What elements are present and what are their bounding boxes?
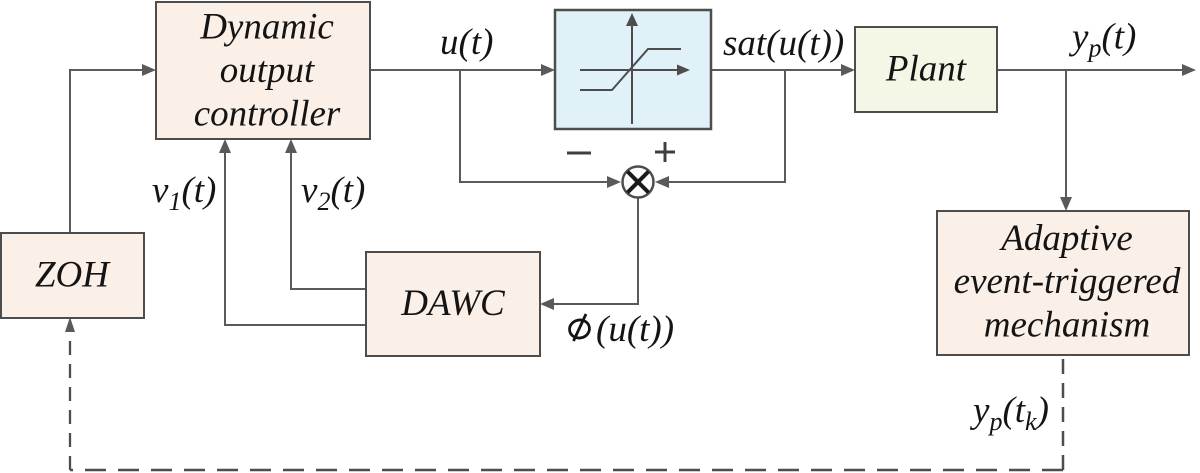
svg-text:v2(t): v2(t) <box>301 170 365 216</box>
svg-text:output: output <box>220 50 316 91</box>
label phi(u(t)) <box>568 318 591 340</box>
wire plant output to right edge <box>997 69 1192 71</box>
block Adaptive event-triggered mechanism <box>937 211 1189 355</box>
arrow into controller left <box>142 64 156 76</box>
svg-text:Adaptive: Adaptive <box>998 218 1133 259</box>
svg-text:DAWC: DAWC <box>400 283 506 324</box>
svg-text:v1(t): v1(t) <box>152 170 216 216</box>
svg-text:Dynamic: Dynamic <box>199 7 334 48</box>
wire DAWC lower output to controller (v1) <box>225 143 366 325</box>
node u(t) branch down to multiplier <box>460 70 617 182</box>
arrow into ZOH bottom <box>65 317 75 332</box>
arrow into multiplier left <box>607 176 621 188</box>
svg-text:sat(u(t)): sat(u(t)) <box>723 23 844 64</box>
arrow into DAWC right <box>540 298 554 310</box>
svg-text:yp(t): yp(t) <box>1068 17 1136 63</box>
block Plant <box>855 27 997 112</box>
svg-text:mechanism: mechanism <box>984 305 1150 346</box>
svg-text:controller: controller <box>194 94 341 135</box>
dashed wire up to ZOH <box>69 331 71 470</box>
block DAWC <box>366 252 540 356</box>
dashed wire adaptive mechanism down <box>1062 355 1065 470</box>
wire multiplier down and left to DAWC <box>544 198 638 305</box>
block ZOH <box>1 233 144 318</box>
label minus sign <box>567 152 591 155</box>
svg-text:Plant: Plant <box>885 49 968 90</box>
node y_p(t) branch down to adaptive mechanism <box>1065 70 1067 206</box>
svg-text:(u(t)): (u(t)) <box>596 309 674 350</box>
svg-text:yp(tk): yp(tk) <box>969 390 1049 436</box>
wire controller output to saturation <box>370 69 551 71</box>
svg-text:u(t): u(t) <box>440 22 493 63</box>
svg-text:ZOH: ZOH <box>35 255 111 296</box>
wire saturation output to plant <box>711 69 851 71</box>
arrow into multiplier right <box>655 176 669 188</box>
wire DAWC upper output to controller (v2) <box>291 143 366 289</box>
saturation horizontal axis <box>580 69 681 71</box>
saturation curve <box>580 49 681 90</box>
node sat(u(t)) branch down to multiplier <box>659 70 785 182</box>
svg-text:event-triggered: event-triggered <box>954 261 1181 302</box>
saturation vertical axis <box>631 24 633 124</box>
arrow v2 into controller bottom <box>285 139 297 153</box>
label plus sign <box>655 151 675 154</box>
arrow into adaptive mechanism top <box>1060 197 1072 211</box>
block Dynamic output controller <box>156 2 370 139</box>
arrow v1 into controller bottom <box>219 139 231 153</box>
arrow output right <box>1182 64 1196 76</box>
arrow into plant left <box>841 64 855 76</box>
block saturation <box>555 10 711 129</box>
dashed wire bottom horizontal <box>70 469 1063 472</box>
wire ZOH top to controller input <box>70 70 152 233</box>
arrow into saturation left <box>541 64 555 76</box>
multiplier junction circle <box>623 167 654 198</box>
